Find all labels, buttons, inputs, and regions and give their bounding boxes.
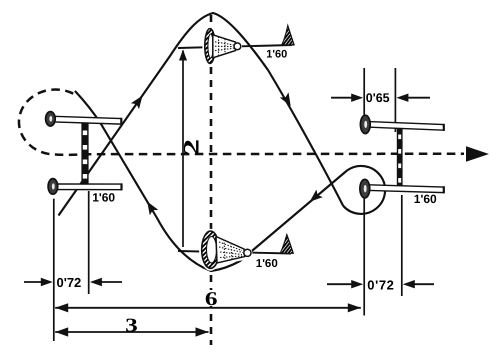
- svg-text:0'72: 0'72: [57, 275, 82, 290]
- svg-text:1'60: 1'60: [256, 258, 278, 270]
- svg-text:2: 2: [178, 139, 203, 156]
- svg-text:1'60: 1'60: [266, 49, 287, 61]
- svg-text:0'65: 0'65: [366, 91, 390, 105]
- svg-text:6: 6: [205, 289, 218, 310]
- svg-text:0'72: 0'72: [367, 277, 394, 292]
- svg-text:1'60: 1'60: [92, 191, 115, 205]
- svg-text:3: 3: [125, 315, 138, 336]
- svg-text:1'60: 1'60: [414, 192, 437, 206]
